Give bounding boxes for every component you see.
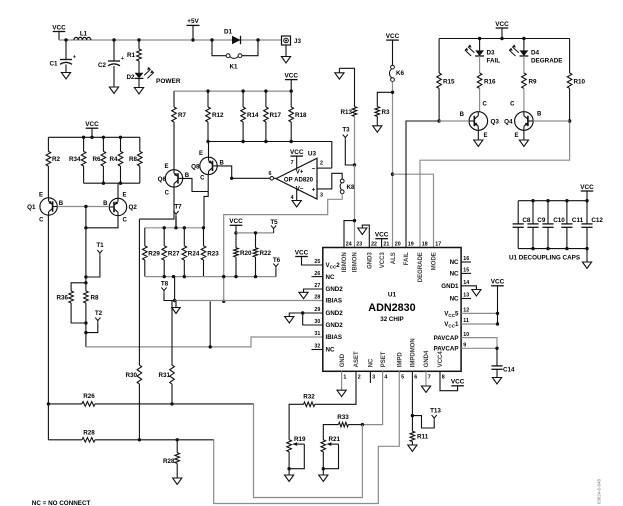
wire MODE line to pin 17 <box>393 174 434 247</box>
power VCC (pin 25) <box>295 249 309 256</box>
wire node down to T2 tee <box>85 323 87 333</box>
inductor L1 <box>74 31 91 41</box>
wire pin 21 stub <box>381 239 383 248</box>
power VCC (R2 bank) <box>85 121 99 128</box>
wire VCC stub <box>586 191 588 201</box>
wire Q8 collector <box>204 175 208 228</box>
wire: network top bus <box>145 227 204 229</box>
wire Q4 base line <box>533 120 569 122</box>
wire R30 column <box>137 219 142 440</box>
wire R26 line left <box>48 403 82 405</box>
svg-text:E: E <box>39 193 43 199</box>
wire C2 to ground <box>113 66 115 87</box>
ground (network) <box>172 308 180 314</box>
svg-text:R34: R34 <box>69 156 81 163</box>
wire T6 drop <box>275 269 277 277</box>
junction K8 route / IBIAS pin28 line <box>222 300 225 303</box>
test point T2 <box>95 310 103 323</box>
junction R18 top <box>290 89 293 92</box>
U1 pin 8 (VCC4) <box>438 351 445 381</box>
IC U1 ADN2830 body <box>323 248 461 372</box>
wire pin 29/30 loop <box>289 313 323 325</box>
wire pin 9 (PAVCAP) <box>461 347 497 349</box>
wire R16 to Q3 collector <box>479 88 481 112</box>
test point T1 <box>96 242 104 255</box>
capacitor C12 <box>581 201 603 249</box>
svg-text:FAIL: FAIL <box>487 58 501 65</box>
resistor R29 <box>143 228 161 277</box>
resistor R17 <box>264 91 282 141</box>
wire R1 top lead <box>138 40 140 49</box>
svg-text:ADN2830: ADN2830 <box>368 302 415 314</box>
svg-text:PAVCAP: PAVCAP <box>434 335 459 342</box>
svg-text:R16: R16 <box>484 79 496 86</box>
svg-text:VCC: VCC <box>295 249 309 256</box>
power VCC (U3) <box>290 149 304 156</box>
junction R24 top <box>183 226 186 229</box>
LED D3 (FAIL) <box>465 44 500 64</box>
svg-text:GND2: GND2 <box>326 286 344 293</box>
wire VCC stub <box>235 225 237 233</box>
junction R6 bottom <box>102 182 105 185</box>
svg-text:R8: R8 <box>129 156 138 163</box>
U1 pin 4 (PSET) <box>381 351 388 380</box>
wire pin 1 to ground <box>341 371 343 390</box>
wire R19 bottom <box>288 452 290 469</box>
junction R21 wiper <box>322 467 325 470</box>
wire riser pin28 line to IBIAS line <box>209 301 211 347</box>
wire C2 lead <box>113 40 115 61</box>
junction PAVCAP <box>495 347 498 350</box>
resistor R31 label <box>158 372 170 379</box>
test point T3 <box>342 127 350 140</box>
connector J3 <box>282 36 302 45</box>
svg-text:D4: D4 <box>531 50 540 57</box>
junction D4 top <box>522 37 525 40</box>
svg-text:ALS: ALS <box>391 252 397 264</box>
svg-text:R19: R19 <box>294 436 306 443</box>
ground (C1) <box>61 73 70 79</box>
wire T2 to node <box>86 323 98 333</box>
power VCC (R18 bank) <box>284 72 298 79</box>
wire K1 loop <box>212 40 258 56</box>
svg-text:T8: T8 <box>161 281 169 288</box>
wire R31 column <box>170 301 175 404</box>
ground (R19) <box>285 475 294 481</box>
wire pin 3 stub <box>369 371 371 383</box>
svg-text:Q1: Q1 <box>27 204 36 211</box>
wire riser to pin 23 <box>354 165 356 248</box>
U1 pin 26 (NC) <box>312 271 335 281</box>
wire T7 drop <box>175 216 177 228</box>
svg-text:9: 9 <box>463 343 466 349</box>
wire R3 branch <box>377 92 392 106</box>
junction R23 top <box>202 226 205 229</box>
junction T1/node <box>84 275 87 278</box>
wire K6 to ALS pin 20 riser <box>392 82 394 248</box>
wire IBIAS pin 28 line <box>175 300 323 302</box>
wire: network bottom bus <box>145 276 276 278</box>
U1 pin 12 (VCC5) <box>444 308 469 318</box>
transistor Q4 <box>504 102 542 140</box>
svg-text:T13: T13 <box>430 408 441 415</box>
svg-text:GND2: GND2 <box>326 322 344 329</box>
junction C10 bottom <box>546 247 549 250</box>
wire PSET node to R26 line <box>254 404 363 498</box>
svg-text:VCC: VCC <box>229 218 243 225</box>
wire R28 shunt lead <box>176 440 178 453</box>
wire pin 14 to ground <box>461 286 476 290</box>
svg-text:OP AD820: OP AD820 <box>284 176 314 183</box>
junction C10 top <box>546 199 549 202</box>
junction T8/IBIAS pin28 line <box>173 299 176 302</box>
LED D4 (DEGRADE) <box>509 44 562 64</box>
svg-text:C9: C9 <box>537 217 546 224</box>
svg-text:C2: C2 <box>98 62 107 69</box>
wire Q8 emitter <box>208 142 210 158</box>
svg-text:DEGRADE: DEGRADE <box>418 252 424 282</box>
junction pin 12 <box>496 312 499 315</box>
wire pin 4 PSET descender <box>362 371 382 424</box>
U1 pin 28 (IBIAS) <box>314 295 342 305</box>
U1 pin 27 (GND2) <box>314 283 343 293</box>
ground (R21) <box>319 475 328 481</box>
junction C9 bottom <box>531 247 534 250</box>
capacitor C1 <box>49 54 76 67</box>
svg-text:T7: T7 <box>174 204 182 211</box>
junction R17 top <box>264 89 267 92</box>
resistor R15 <box>437 39 455 122</box>
svg-text:R15: R15 <box>443 79 455 86</box>
wire R33 to R21 <box>323 425 338 440</box>
junction C12 bottom <box>585 247 588 250</box>
wire U3 pin 4 <box>291 189 297 201</box>
power VCC (decoupling) <box>580 184 594 191</box>
junction R17 bottom <box>264 140 267 143</box>
wire D3 to R16 <box>479 56 481 73</box>
jumper K1 <box>226 54 242 71</box>
junction R31/R26 line <box>170 402 173 405</box>
power VCC (K6) <box>386 33 400 40</box>
resistor R28 (shunt) <box>163 453 180 465</box>
junction T3/riser <box>353 163 356 166</box>
junction R34 top <box>82 136 85 139</box>
junction R30/R28 line <box>138 438 141 441</box>
junction R28 shunt <box>176 438 179 441</box>
wire: VCC input rail stub <box>58 32 60 41</box>
wire Q3 emitter to ground <box>477 130 479 140</box>
svg-text:23: 23 <box>356 241 362 247</box>
svg-text:2: 2 <box>358 374 361 380</box>
wire base node down <box>85 207 87 283</box>
wire pin 5 IMPD route <box>214 371 400 503</box>
transistor Q6 <box>158 164 190 197</box>
svg-text:11: 11 <box>463 318 469 324</box>
ground (pin 27) <box>299 292 308 298</box>
op-amp output pin 6 <box>269 171 274 180</box>
svg-text:16: 16 <box>463 256 469 262</box>
wire U3 pin 2 (inverting input) <box>317 161 332 169</box>
wire R2 to Q1 emitter <box>47 166 49 198</box>
U1 pin 15 (NC) <box>450 268 471 278</box>
transistor Q8 <box>191 151 224 182</box>
U1 pin 1 (GND) <box>340 353 347 380</box>
svg-text:32 CHIP: 32 CHIP <box>380 316 403 323</box>
LED D2 (power indicator) <box>126 67 180 85</box>
svg-text:8: 8 <box>442 374 445 380</box>
junction R22 bottom <box>254 275 257 278</box>
svg-text:L1: L1 <box>80 31 88 38</box>
U1 pin 9 (PAVCAP) <box>434 343 467 353</box>
svg-text:FAIL: FAIL <box>404 252 410 265</box>
svg-text:T6: T6 <box>273 257 281 264</box>
svg-text:+: + <box>121 56 124 62</box>
junction T7/bus <box>174 226 177 229</box>
wire pin 22 to ground <box>362 225 369 247</box>
wire R3 to ground <box>376 116 378 125</box>
svg-text:B: B <box>537 112 542 118</box>
test point T7 <box>173 204 182 217</box>
svg-text:30: 30 <box>314 319 320 325</box>
wire pin 8 to VCC <box>440 371 458 390</box>
resistor R32 <box>303 394 315 407</box>
wire D4 lead <box>523 39 525 51</box>
svg-text:V+: V+ <box>296 168 304 175</box>
wire D2 to ground <box>138 78 140 87</box>
U1 pin 11 (VCC1) <box>444 318 469 328</box>
junction pin 11 <box>496 322 499 325</box>
capacitor C9 <box>527 201 545 249</box>
resistor R13 <box>340 107 356 117</box>
svg-text:C11: C11 <box>572 217 584 224</box>
svg-text:R30: R30 <box>125 372 137 379</box>
ground (pin 7) <box>421 386 430 392</box>
wire R13 top <box>339 68 354 106</box>
U1 pin 14 (GND1) <box>441 280 469 290</box>
wire: main +5V rail <box>59 39 282 41</box>
svg-text:R28: R28 <box>83 430 95 437</box>
ground (decoupling) <box>582 262 591 268</box>
svg-text:B: B <box>460 112 465 118</box>
svg-text:29: 29 <box>314 307 320 313</box>
wire: decoupling bottom bus <box>518 248 587 250</box>
svg-text:VCC: VCC <box>580 184 594 191</box>
ground (Q4) <box>519 140 528 146</box>
capacitor C14 <box>491 366 515 374</box>
svg-text:R4: R4 <box>109 156 118 163</box>
svg-text:J3: J3 <box>294 38 302 45</box>
wire +5V stub <box>192 25 194 40</box>
jumper K8 <box>340 179 355 194</box>
ground (pin 22) <box>358 228 367 234</box>
power VCC (input filter) <box>52 24 66 31</box>
wire Q4 emitter to ground <box>523 130 525 140</box>
svg-text:K6: K6 <box>396 70 405 77</box>
svg-text:3: 3 <box>320 193 323 199</box>
wire R21 bottom <box>322 452 324 469</box>
wire Q3 base line <box>439 120 469 122</box>
U1 pin 5 (IMPD) <box>398 352 405 381</box>
wire pin 24 loop <box>344 221 355 248</box>
wire Q2 emitter <box>117 183 119 198</box>
junction R27 bottom <box>163 275 166 278</box>
wire R9 to Q4 collector <box>523 88 525 112</box>
resistor R33 <box>337 414 362 427</box>
wire R36 top branch <box>71 283 86 291</box>
svg-text:E: E <box>199 151 203 157</box>
svg-text:VCC: VCC <box>85 121 99 128</box>
transistor Q2 <box>103 193 137 224</box>
U1 pin 7 (GND4) <box>424 350 431 380</box>
svg-text:12: 12 <box>463 308 469 314</box>
U1 pin 24 (IBMON) <box>342 241 352 272</box>
svg-text:GND3: GND3 <box>368 252 374 269</box>
svg-text:POWER: POWER <box>156 78 181 85</box>
svg-text:26: 26 <box>314 271 320 277</box>
svg-text:R32: R32 <box>303 394 315 401</box>
wire: bias bus upper <box>174 90 291 92</box>
svg-text:Q2: Q2 <box>129 204 138 211</box>
svg-text:VCC: VCC <box>375 232 389 239</box>
resistor R23 <box>201 228 219 277</box>
wire T3 to riser <box>345 140 354 165</box>
ground (C14) <box>492 378 501 384</box>
test point T6 <box>273 257 281 269</box>
svg-text:IBMON: IBMON <box>353 252 359 272</box>
wire: R20 top bus <box>236 232 274 234</box>
svg-text:R23: R23 <box>207 251 219 258</box>
svg-text:32: 32 <box>314 344 320 350</box>
wire: decoupling top bus <box>518 200 587 202</box>
wire C1 lead <box>65 40 67 60</box>
junction R33/PSET <box>361 423 364 426</box>
junction R10/Q4 base <box>568 119 571 122</box>
resistor R24 <box>182 228 200 277</box>
wire FAIL line pin 19 to Q3 base <box>406 121 469 248</box>
svg-text:C: C <box>200 176 205 182</box>
svg-text:U3: U3 <box>308 151 317 158</box>
svg-text:MODE: MODE <box>432 252 438 270</box>
U1 pin 20 (ALS) <box>391 241 401 264</box>
wire DEGRADE line pin 18 to Q4 base <box>420 121 570 248</box>
wire D3 lead <box>479 39 481 51</box>
power VCC (pin 8) <box>451 379 465 386</box>
wire Q1-Q2 base line <box>57 206 109 208</box>
wire R19 to ground <box>288 469 290 475</box>
junction R27 top <box>163 226 166 229</box>
wire IBIAS pin 31 line <box>86 337 323 347</box>
svg-text:IMPDMON: IMPDMON <box>411 338 417 367</box>
svg-text:R18: R18 <box>295 112 307 119</box>
wire VCC to pin 12 <box>461 286 497 314</box>
wire op-amp output line <box>232 177 276 179</box>
wire pin 10 (PAVCAP) <box>461 338 497 349</box>
resistor R9 <box>522 73 537 88</box>
wire pin 11 <box>461 313 497 324</box>
wire U3 pin 7 <box>291 156 297 169</box>
wire: R2-bank bottom bus <box>84 182 140 184</box>
wire pin 6 IMPDMON <box>411 371 413 415</box>
junction R1/rail <box>137 38 140 41</box>
svg-text:14: 14 <box>463 280 469 286</box>
jumper K6 <box>389 65 404 81</box>
junction +5V/rail <box>191 38 194 41</box>
wire Q2 collector <box>86 216 118 228</box>
svg-text:R10: R10 <box>574 79 586 86</box>
svg-text:3: 3 <box>372 374 375 380</box>
svg-text:R36: R36 <box>56 295 68 302</box>
svg-text:PSET: PSET <box>381 351 387 367</box>
wire node to IBIAS line <box>85 333 87 347</box>
ground (R28) <box>173 478 182 484</box>
junction Q8 base/output <box>230 177 233 180</box>
svg-text:GND4: GND4 <box>424 350 430 367</box>
power VCC (indicators) <box>495 21 509 28</box>
svg-text:T3: T3 <box>342 127 350 134</box>
wire R11 to ground <box>411 442 413 445</box>
power VCC (R20) <box>229 218 243 225</box>
wire R21 to ground <box>322 469 324 475</box>
resistor R18 <box>289 91 307 141</box>
wire R26 line right <box>95 403 254 405</box>
svg-text:D3: D3 <box>487 50 496 57</box>
junction K1 left <box>210 38 213 41</box>
svg-text:IBMON: IBMON <box>342 252 348 272</box>
resistor R2 <box>46 137 60 166</box>
junction VCC/bus <box>90 136 93 139</box>
wire pin 25 <box>302 257 323 266</box>
wire R7 to Q6 emitter <box>173 122 175 170</box>
junction R6 top <box>102 136 105 139</box>
junction R36 bottom <box>84 321 87 324</box>
ground (Q3) <box>474 140 483 146</box>
svg-text:R9: R9 <box>529 79 538 86</box>
ground (J3) <box>281 57 290 63</box>
svg-text:VCC: VCC <box>491 279 505 286</box>
wire PAVCAP to C14 <box>496 348 498 366</box>
svg-text:C12: C12 <box>591 217 603 224</box>
U1 pin 19 (FAIL) <box>404 241 414 265</box>
U1 pin 13 (NC) <box>450 293 471 303</box>
svg-text:E: E <box>164 164 168 170</box>
junction R4 top <box>119 136 122 139</box>
wire T1 to node <box>86 255 100 277</box>
svg-text:C: C <box>123 218 128 224</box>
wire Q6 collector <box>139 187 174 219</box>
resistor R14 <box>241 91 259 141</box>
U1 pin 30 (GND2) <box>314 319 343 329</box>
U1 pin 17 (MODE) <box>432 241 442 270</box>
svg-text:R26: R26 <box>83 393 95 400</box>
junction IMPDMON/T13 <box>411 414 414 417</box>
wire VCC stub to bus <box>290 80 292 92</box>
junction R14 bottom <box>241 140 244 143</box>
svg-text:IBIAS: IBIAS <box>326 334 343 341</box>
svg-text:NC: NC <box>450 296 459 303</box>
svg-text:R17: R17 <box>270 112 282 119</box>
resistor R12 <box>206 91 224 141</box>
svg-text:NC: NC <box>326 274 335 281</box>
resistor R27 <box>162 228 180 277</box>
resistor R10 <box>567 39 585 122</box>
svg-text:NC: NC <box>450 271 459 278</box>
wire J3 to ground <box>285 45 287 57</box>
potentiometer R19 <box>287 436 306 469</box>
junction R24 bottom <box>183 275 186 278</box>
svg-text:GND: GND <box>340 353 346 367</box>
wire Q6 base <box>183 178 209 191</box>
resistor R4 <box>109 137 122 183</box>
